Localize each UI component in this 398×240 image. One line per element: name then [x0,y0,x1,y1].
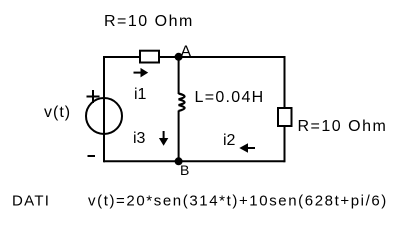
resistor R2 (right, vertical) [278,108,292,126]
plus sign of source [87,90,100,103]
svg-text:L=0.04H: L=0.04H [195,89,265,106]
wire bottom (left corner to B to right corner) [104,160,285,162]
svg-text:i1: i1 [134,86,147,103]
svg-text:R=10 Ohm: R=10 Ohm [298,118,388,135]
svg-text:B: B [180,162,189,178]
wire middle branch lower [178,111,180,162]
svg-text:R=10 Ohm: R=10 Ohm [104,13,194,30]
svg-text:DATI: DATI [12,193,50,210]
current arrow i1 (right) [134,68,149,78]
current arrow i2 (left) [239,143,255,152]
node B (junction dot) [175,157,183,165]
svg-text:A: A [181,44,192,61]
wire middle branch upper [178,57,180,94]
svg-text:v(t): v(t) [44,104,71,121]
svg-text:i3: i3 [133,130,146,147]
wire left branch [103,56,105,162]
minus sign of source [88,155,96,157]
node A (junction dot) [175,53,183,61]
wire top (node to A to top-right corner) [104,56,285,58]
svg-text:v(t)=20*sen(314*t)+10sen(628t+: v(t)=20*sen(314*t)+10sen(628t+pi/6) [88,193,388,210]
inductor L (3 bumps) [179,94,185,111]
current arrow i3 (down) [159,131,168,146]
voltage source V (circle) [86,98,122,134]
resistor R1 (top, horizontal) [140,51,159,63]
wire right branch [284,56,286,162]
svg-text:i2: i2 [223,132,236,149]
